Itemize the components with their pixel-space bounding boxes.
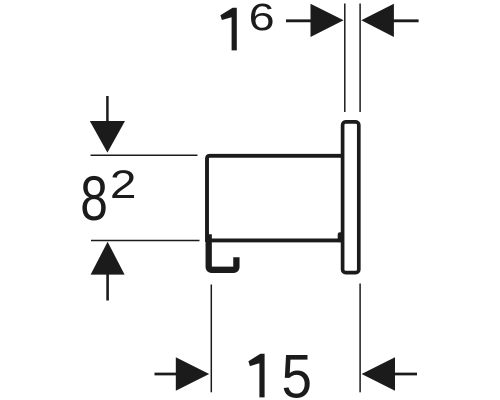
svg-text:2: 2 [110,163,137,207]
svg-text:5: 5 [282,342,313,400]
svg-text:6: 6 [249,0,275,39]
svg-text:8: 8 [80,164,108,234]
